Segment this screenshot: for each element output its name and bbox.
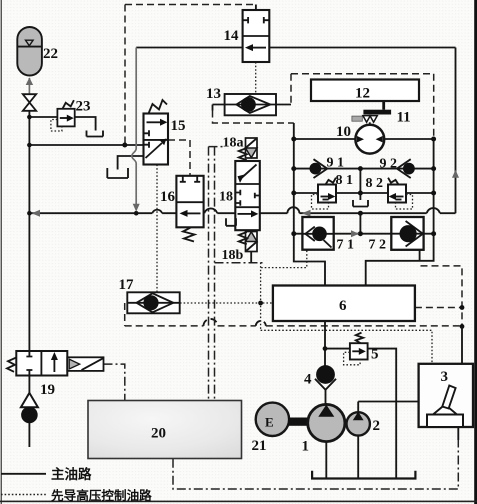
box 6	[273, 286, 415, 322]
accumulator 22	[17, 27, 42, 76]
shut-off valve	[23, 94, 36, 111]
junction pilot drop on supply line	[122, 143, 127, 148]
right motor bus	[366, 139, 434, 286]
wire right side vertical up to valve14 line	[455, 48, 457, 214]
wire box6 bottom to pump	[324, 321, 326, 366]
tank for valve 23	[87, 131, 104, 137]
dashed from 7 2 bottom to line feeding valve 3	[415, 266, 465, 364]
valve 14	[243, 5, 270, 63]
junction center 8 line	[358, 191, 363, 196]
junction center 7 line	[358, 231, 363, 236]
svg-text:7 2: 7 2	[369, 238, 387, 253]
svg-text:9 1: 9 1	[327, 156, 345, 171]
relief valve 5	[344, 333, 368, 365]
dotted pilot from 7 1 and 18b junction	[261, 251, 307, 331]
check valve 4	[315, 365, 336, 405]
pilot pump line to valve 3	[358, 401, 418, 403]
svg-text:13: 13	[206, 86, 221, 102]
check valve 9 2	[397, 159, 415, 178]
svg-text:12: 12	[355, 86, 370, 102]
dotted pilot valve14 to valve13	[255, 62, 257, 94]
junction right bus 9 line	[431, 166, 436, 171]
counterbalance check 7 1	[302, 217, 333, 250]
svg-text:7 1: 7 1	[337, 238, 355, 253]
gray flow arrow up to accumulator	[26, 77, 33, 95]
pressure valve 23	[51, 100, 75, 131]
svg-text:11: 11	[397, 110, 411, 126]
svg-text:先导高压控制油路: 先导高压控制油路	[51, 488, 152, 503]
junction accumulator/valve23 line	[27, 115, 32, 120]
solenoid valve 19	[7, 351, 104, 376]
svg-text:18: 18	[219, 190, 233, 205]
main pump 1	[308, 404, 345, 441]
svg-text:19: 19	[40, 382, 55, 398]
dotted pilot valve15 to valve17	[156, 165, 158, 293]
relief valve 8 1	[312, 178, 337, 209]
center tank	[353, 200, 368, 207]
relief valve 8 line	[294, 192, 434, 194]
check valve below 19	[21, 393, 38, 423]
wire to relief valve 5	[325, 348, 350, 350]
dashed loop valve13 left port down to motor bus	[212, 105, 214, 111]
svg-text:21: 21	[252, 438, 267, 454]
svg-text:主油路: 主油路	[51, 466, 92, 482]
junction main line left bus	[27, 211, 32, 216]
tank for valve 15	[107, 168, 128, 178]
dashed pilot valve15 to valve16	[168, 140, 190, 176]
main pressure line with bridge hops	[29, 207, 455, 213]
solenoid 18a	[239, 138, 257, 160]
fan 11	[352, 101, 391, 125]
motor line	[294, 138, 434, 140]
wire valve5 out to tank line	[368, 349, 397, 479]
wire accumulator branch vertical bus	[28, 110, 30, 352]
svg-text:15: 15	[171, 118, 186, 134]
junction right bus motor line	[431, 137, 436, 142]
svg-text:18a: 18a	[223, 136, 244, 151]
valve 16	[176, 176, 203, 242]
svg-text:14: 14	[224, 28, 240, 44]
svg-text:4: 4	[304, 372, 312, 388]
solenoid 18b	[239, 232, 257, 263]
svg-text:9 2: 9 2	[380, 157, 398, 172]
valve 13 pilot check	[213, 94, 292, 115]
dashed box around fan/motor circuit	[291, 74, 434, 138]
junction right bus 7 line	[431, 231, 436, 236]
wire valve23 outlet to tank	[75, 117, 96, 131]
svg-text:2: 2	[373, 418, 381, 434]
dash-dot bottom border box20 to box3	[173, 440, 458, 489]
center vertical to tank	[359, 169, 361, 200]
check valve 9 1	[310, 159, 328, 178]
svg-text:6: 6	[339, 298, 347, 314]
svg-text:3: 3	[441, 369, 449, 385]
radiator box 12	[311, 80, 419, 102]
dash-dot lines valve groups to box20	[209, 147, 264, 400]
svg-text:18b: 18b	[222, 248, 244, 263]
ECU box 20	[88, 401, 242, 459]
svg-text:10: 10	[336, 124, 351, 140]
counterbalance check 7 2	[391, 217, 423, 250]
junction left bus motor line	[291, 137, 296, 142]
junction left bus 7 line	[291, 231, 296, 236]
hydraulic motor 10	[355, 125, 384, 154]
pilot valve box 3	[419, 364, 473, 427]
dashed line top-left box to valve 14	[125, 5, 254, 145]
svg-text:17: 17	[119, 277, 135, 293]
counterbalance 7 line	[294, 233, 434, 235]
junction center 9 line	[358, 166, 363, 171]
junction left bus 8 line	[291, 191, 296, 196]
wire supply to valve 15	[29, 144, 143, 146]
relief valve 8 2	[388, 178, 413, 209]
gray flow arrow left on main line west end	[32, 210, 40, 217]
svg-text:8 1: 8 1	[336, 173, 354, 188]
wire valve15 left port to tank	[118, 156, 144, 170]
junction center main line	[358, 211, 363, 216]
valve 18	[226, 161, 260, 230]
valve 15	[144, 100, 169, 165]
svg-text:20: 20	[151, 426, 166, 442]
junction supply line to valve15	[27, 143, 32, 148]
gray arrow right on 7 line	[351, 230, 359, 237]
valve 17 pilot check	[127, 292, 179, 313]
gray arrow down on valve14 branch	[133, 204, 140, 212]
dotted pilot line valve17 to box6	[180, 302, 273, 304]
wire main line to 7 line	[359, 213, 361, 234]
long dashed line from valve17 to right side	[125, 303, 462, 326]
junction valve14 branch on main line	[134, 211, 139, 216]
wire pump suctions and base	[312, 435, 415, 478]
junction right bus 8 line	[431, 191, 436, 196]
wire pump2 to pilot line	[357, 402, 359, 414]
svg-text:22: 22	[43, 46, 58, 62]
engine 21	[256, 403, 309, 436]
wire top line to valve 14	[136, 47, 455, 49]
pilot pump 2	[347, 412, 370, 436]
svg-text:23: 23	[76, 99, 91, 115]
wire from valve14 down to main line	[132, 48, 136, 206]
svg-text:1: 1	[302, 439, 310, 455]
gray arrow up on right vertical	[452, 170, 459, 178]
dotted pilot line to valve 3	[261, 330, 432, 364]
svg-text:5: 5	[371, 347, 379, 363]
svg-text:E: E	[265, 415, 274, 430]
legend	[1, 466, 152, 503]
dash-dot electric line from valve19 solenoid to box20	[104, 364, 125, 400]
junction left bus 9 line	[291, 166, 296, 171]
junction pilot dotted lines	[258, 301, 263, 306]
wire to valve 23	[29, 116, 57, 118]
junction pump outlet to valve5	[323, 346, 328, 351]
svg-text:8 2: 8 2	[366, 176, 384, 191]
gray flow arrow left at motor bus hop	[302, 210, 311, 217]
left motor bus	[294, 123, 325, 286]
check valve 9 line	[294, 168, 434, 170]
svg-text:16: 16	[160, 189, 176, 205]
wire below valve19	[28, 376, 30, 448]
